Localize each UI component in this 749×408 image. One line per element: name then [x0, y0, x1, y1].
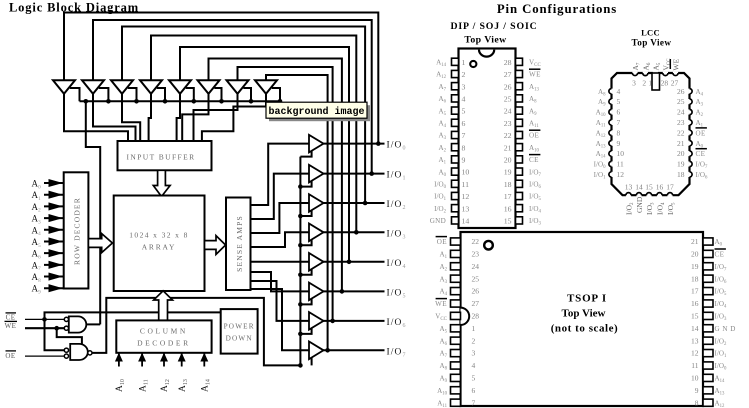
svg-text:28: 28 [661, 79, 669, 88]
svg-text:Top View: Top View [632, 38, 672, 48]
junction on enable bus 3 [163, 99, 168, 104]
svg-text:18: 18 [691, 274, 699, 283]
svg-text:A11: A11 [529, 120, 539, 130]
TSOP pin 24 stub [451, 263, 461, 270]
svg-text:WE: WE [672, 58, 681, 70]
svg-text:ARRAY: ARRAY [142, 242, 177, 251]
wire: I/O1 line [323, 173, 385, 175]
svg-text:26: 26 [472, 287, 480, 296]
svg-text:A6: A6 [438, 95, 446, 105]
wire: buffer A6 output into input buffer [182, 94, 208, 142]
wire: buffer A7 output into input buffer [194, 94, 238, 142]
svg-text:A11: A11 [138, 379, 149, 392]
svg-text:A11: A11 [437, 399, 447, 408]
TSOP pin 9 stub [703, 387, 713, 394]
svg-text:13: 13 [462, 204, 470, 213]
svg-text:19: 19 [691, 262, 699, 271]
svg-text:A4: A4 [32, 225, 42, 237]
junction on enable rail 3 [298, 243, 303, 248]
junction on enable bus 0 [84, 99, 89, 104]
svg-text:5: 5 [462, 107, 466, 116]
wire: WE input line [25, 327, 66, 329]
DIP pin 13 stub left [452, 205, 459, 212]
DIP pin 2 stub left [452, 70, 459, 77]
wire: enable tap to buffer A8 [272, 88, 280, 101]
svg-text:A13: A13 [529, 83, 540, 93]
wire: enable tap to output buffer B1 [300, 150, 311, 157]
wire: data line DQ1 from I/O1 pin to input buffer A2 [93, 20, 372, 174]
svg-text:A14: A14 [201, 379, 212, 392]
svg-text:background image: background image [268, 106, 364, 118]
svg-text:18: 18 [677, 170, 685, 179]
svg-text:A3: A3 [32, 214, 42, 226]
svg-text:A8: A8 [439, 362, 447, 372]
svg-text:A13: A13 [715, 387, 726, 397]
row decoder block U2 [64, 172, 89, 288]
wire: enable tap to buffer A6 [214, 88, 221, 101]
svg-text:A12: A12 [715, 399, 726, 408]
svg-text:24: 24 [504, 107, 512, 116]
column decoder block U5 [116, 320, 211, 352]
wire: enable tap to buffer A2 [99, 88, 109, 101]
DIP pin 27 stub right [516, 70, 523, 77]
svg-text:A4: A4 [439, 288, 447, 298]
svg-text:I/O6: I/O6 [715, 275, 727, 285]
svg-text:I/O1: I/O1 [387, 171, 407, 182]
svg-text:A7: A7 [438, 83, 446, 93]
svg-text:17: 17 [504, 192, 512, 201]
svg-text:A5: A5 [438, 107, 446, 117]
DIP pin 14 stub left [452, 217, 459, 224]
svg-text:GND: GND [635, 196, 644, 213]
wire: enable tap to buffer A1 [70, 88, 80, 101]
wire: data line DQ0 from I/O0 pin to input buffer A1 [64, 13, 378, 144]
junction on I/O7 line [325, 348, 330, 353]
svg-text:11: 11 [462, 180, 470, 189]
svg-text:A14: A14 [436, 59, 447, 69]
svg-text:I/O0: I/O0 [594, 161, 606, 171]
wire: CE to power-down and output gate [45, 312, 221, 319]
svg-text:8: 8 [462, 143, 466, 152]
data input buffer triangle A1 [53, 80, 75, 94]
svg-text:6: 6 [472, 386, 476, 395]
DIP pin 25 stub right [516, 95, 523, 102]
DIP pin 5 stub left [452, 107, 459, 114]
output buffer triangle B1 [309, 135, 324, 153]
power down block U6 [221, 309, 258, 354]
svg-text:1: 1 [472, 324, 476, 333]
svg-text:I/O3: I/O3 [715, 313, 727, 323]
svg-text:CE: CE [696, 150, 706, 158]
DIP package body [459, 49, 516, 229]
wire: OE input line [25, 355, 66, 357]
gate G2 output-control AND gate [70, 344, 88, 360]
wire: enable tap to buffer A3 [128, 88, 137, 101]
svg-text:7: 7 [462, 131, 466, 140]
G1 input bubble WE [64, 326, 68, 330]
svg-text:A0: A0 [32, 179, 42, 191]
svg-text:21: 21 [691, 237, 699, 246]
svg-text:15: 15 [645, 183, 653, 192]
TSOP package body [461, 232, 704, 406]
wire: WE tap to gate G2 top [57, 328, 82, 344]
svg-text:DIP / SOJ / SOIC: DIP / SOJ / SOIC [450, 21, 537, 32]
svg-text:A11: A11 [596, 119, 606, 129]
svg-text:I/O7: I/O7 [696, 161, 708, 171]
wire: sense amp output bit 1 to output buffer B2 [251, 174, 310, 219]
node address input A11 [141, 354, 143, 367]
svg-text:20: 20 [504, 156, 512, 165]
junction on enable bus 5 [219, 99, 224, 104]
svg-text:20: 20 [691, 250, 699, 259]
G2 output bubble [88, 351, 92, 355]
wire: enable tap to output buffer B8 [311, 356, 313, 365]
TSOP pin 11 stub [703, 362, 713, 369]
svg-text:I/O5: I/O5 [666, 202, 677, 215]
svg-text:CE: CE [529, 156, 539, 164]
svg-text:I/O7: I/O7 [387, 347, 407, 358]
LCC bottom edge castellations [626, 194, 631, 197]
DIP pin 20 stub right [516, 156, 523, 163]
svg-text:10: 10 [462, 168, 470, 177]
junction on enable bus 2 [134, 99, 139, 104]
svg-text:(not to scale): (not to scale) [551, 323, 619, 335]
svg-text:I/O4: I/O4 [656, 202, 667, 215]
svg-text:A5: A5 [651, 62, 662, 70]
junction on I/O3 line [354, 230, 359, 235]
TSOP pin 10 stub [703, 374, 713, 381]
svg-text:24: 24 [677, 108, 685, 117]
svg-text:A7: A7 [631, 62, 642, 70]
svg-text:20: 20 [677, 149, 685, 158]
wire: row decoder to array hollow arrow [88, 234, 112, 253]
svg-text:23: 23 [472, 250, 480, 259]
junction on enable rail 4 [298, 273, 303, 278]
wire: buffer A4 output into input buffer [149, 94, 151, 142]
junction on enable bus 1 [106, 99, 111, 104]
svg-text:A13: A13 [596, 140, 607, 150]
junction on I/O0 line [376, 141, 381, 146]
svg-text:14: 14 [635, 183, 643, 192]
svg-text:A9: A9 [598, 98, 606, 108]
TSOP pin 6 stub [451, 387, 461, 394]
junction on I/O5 line [340, 289, 345, 294]
svg-text:GND: GND [430, 217, 446, 225]
svg-text:26: 26 [677, 87, 685, 96]
svg-text:I/O5: I/O5 [529, 193, 541, 203]
svg-text:I/O5: I/O5 [715, 288, 727, 298]
DIP pin 22 stub right [516, 131, 523, 138]
svg-text:I/O7: I/O7 [529, 168, 541, 178]
TSOP pin 26 stub [451, 288, 461, 295]
svg-text:A12: A12 [160, 379, 171, 392]
svg-text:A7: A7 [32, 260, 42, 272]
svg-text:A12: A12 [596, 129, 607, 139]
junction on enable rail 2 [298, 214, 303, 219]
wire: enable tap to output buffer B3 [300, 209, 311, 216]
svg-text:9: 9 [695, 386, 699, 395]
TSOP pin 18 stub [703, 275, 713, 282]
LCC package body [612, 73, 690, 195]
svg-text:INPUT BUFFER: INPUT BUFFER [127, 153, 196, 162]
TSOP pin 1 stub [451, 325, 461, 332]
wire: enable tap to output buffer B6 [300, 297, 311, 304]
svg-text:22: 22 [677, 128, 685, 137]
svg-text:3: 3 [472, 349, 476, 358]
svg-text:25: 25 [472, 274, 480, 283]
wire: enable tap to output buffer B4 [300, 238, 311, 245]
svg-text:23: 23 [677, 118, 685, 127]
svg-text:OE: OE [5, 352, 15, 360]
wire: I/O4 line [323, 261, 385, 263]
svg-text:26: 26 [504, 82, 512, 91]
svg-text:I/O3: I/O3 [387, 229, 407, 240]
svg-text:25: 25 [677, 97, 685, 106]
svg-text:SENSE AMPS: SENSE AMPS [235, 215, 244, 272]
svg-text:6: 6 [462, 119, 466, 128]
svg-text:DOWN: DOWN [226, 335, 253, 343]
TSOP pin 25 stub [451, 275, 461, 282]
svg-text:A0: A0 [696, 140, 704, 150]
LCC pin-1 marker [652, 73, 660, 90]
wire: array to sense amps hollow arrow [205, 236, 226, 255]
svg-text:I/O4: I/O4 [529, 205, 541, 215]
TSOP pin 8 stub [703, 399, 713, 406]
svg-text:A1: A1 [696, 119, 704, 129]
data input buffer triangle A7 [227, 80, 249, 94]
svg-text:I/O5: I/O5 [387, 289, 407, 300]
data input buffer triangle A6 [198, 80, 220, 94]
junction on CE line [42, 317, 47, 322]
svg-text:5: 5 [617, 97, 621, 106]
svg-text:A13: A13 [178, 379, 189, 392]
DIP pin 15 stub right [516, 217, 523, 224]
DIP pin 23 stub right [516, 119, 523, 126]
svg-text:POWER: POWER [224, 323, 255, 331]
wire: enable tap to output buffer B2 [300, 180, 311, 187]
svg-text:A4: A4 [438, 120, 446, 130]
junction on enable bus 4 [192, 99, 197, 104]
DIP pin 21 stub right [516, 144, 523, 151]
svg-text:A2: A2 [439, 263, 447, 273]
TSOP pin 21 stub [703, 238, 713, 245]
svg-text:I/O3: I/O3 [529, 217, 541, 227]
DIP pin 7 stub left [452, 131, 459, 138]
TSOP pin-1 indicator circle [484, 241, 493, 250]
wire: buffer A2 output into input buffer [93, 94, 136, 142]
wire: I/O3 line [323, 231, 385, 233]
svg-text:Pin Configurations: Pin Configurations [497, 2, 617, 16]
DIP pin 24 stub right [516, 107, 523, 114]
wire: I/O6 line [323, 320, 385, 322]
svg-text:A1: A1 [438, 156, 446, 166]
junction on enable rail 1 [298, 184, 303, 189]
svg-text:DECODER: DECODER [137, 338, 191, 347]
junction on I/O1 line [369, 171, 374, 176]
svg-text:A7: A7 [439, 350, 447, 360]
TSOP pin 17 stub [703, 288, 713, 295]
svg-text:I/O4: I/O4 [387, 259, 407, 270]
svg-text:VCC: VCC [435, 313, 447, 323]
svg-text:1: 1 [462, 58, 466, 67]
svg-text:A10: A10 [529, 144, 540, 154]
svg-text:4: 4 [617, 87, 621, 96]
svg-text:28: 28 [472, 312, 480, 321]
svg-text:A9: A9 [439, 375, 447, 385]
output buffer triangle B8 [309, 342, 324, 360]
wire: enable tap to output buffer B5 [300, 268, 311, 275]
svg-text:I/O1: I/O1 [434, 193, 446, 203]
wire: I/O7 line [323, 349, 385, 351]
wire: data line DQ3 from I/O3 pin to input buffer A4 [151, 36, 356, 233]
node address input A10 [118, 354, 120, 367]
svg-text:I/O6: I/O6 [387, 318, 407, 329]
junction on enable rail 5 [298, 302, 303, 307]
svg-text:A6: A6 [439, 337, 447, 347]
data input buffer triangle A2 [82, 80, 104, 94]
TSOP pin 5 stub [451, 374, 461, 381]
svg-text:23: 23 [504, 119, 512, 128]
wire: data line DQ4 from I/O4 pin to input buffer A5 [180, 47, 349, 262]
node address input A14 [203, 354, 205, 367]
junction on enable rail 6 [298, 332, 303, 337]
node address input A13 [181, 354, 183, 367]
DIP pin-1 indicator circle [470, 61, 476, 67]
wire: buffer A3 output into input buffer [122, 94, 140, 142]
svg-text:A9: A9 [32, 284, 42, 296]
wire: buffer A8 output into input buffer [202, 94, 266, 142]
TSOP pin 15 stub [703, 312, 713, 319]
svg-text:7: 7 [472, 398, 476, 407]
junction on WE line [54, 326, 59, 331]
svg-text:A12: A12 [436, 71, 447, 81]
svg-text:A10: A10 [437, 387, 448, 397]
svg-text:I/O2: I/O2 [625, 202, 636, 215]
svg-text:A9: A9 [529, 107, 537, 117]
svg-text:WE: WE [5, 322, 17, 330]
svg-text:VCC: VCC [529, 59, 541, 69]
TSOP pin 23 stub [451, 250, 461, 257]
DIP pin 6 stub left [452, 119, 459, 126]
svg-text:2: 2 [642, 79, 646, 88]
LCC left edge castellations [610, 89, 613, 94]
svg-text:15: 15 [504, 217, 512, 226]
svg-text:28: 28 [504, 58, 512, 67]
svg-text:3: 3 [462, 82, 466, 91]
svg-text:12: 12 [617, 170, 625, 179]
junction on I/O6 line [330, 319, 335, 324]
wire: sense amp output bit 6 to output buffer B7 [251, 281, 310, 321]
svg-text:1024 x 32 x 8: 1024 x 32 x 8 [129, 230, 188, 239]
DIP pin 16 stub right [516, 205, 523, 212]
svg-text:A3: A3 [439, 275, 447, 285]
data input buffer triangle A5 [169, 80, 191, 94]
wire: enable tap to buffer A5 [186, 88, 194, 101]
TSOP pin 20 stub [703, 250, 713, 257]
input buffer block U1 [118, 141, 212, 170]
svg-text:6: 6 [617, 108, 621, 117]
junction on I/O4 line [347, 260, 352, 265]
svg-text:11: 11 [691, 361, 698, 370]
svg-text:A0: A0 [438, 168, 446, 178]
wire: buffer A1 output into input buffer [64, 94, 128, 142]
svg-text:14: 14 [462, 217, 470, 226]
svg-text:17: 17 [691, 287, 699, 296]
svg-text:10: 10 [617, 149, 625, 158]
wire: enable bus to write gate G1 [86, 101, 100, 324]
wire: data line DQ2 from I/O2 pin to input buffer A3 [122, 27, 365, 204]
wire: sense amp output bit 3 to output buffer B4 [251, 232, 310, 247]
svg-text:G N D: G N D [715, 325, 736, 333]
svg-text:A2: A2 [32, 202, 42, 214]
svg-text:I/O2: I/O2 [387, 200, 407, 211]
svg-text:A3: A3 [438, 132, 446, 142]
svg-text:2: 2 [472, 336, 476, 345]
output buffer triangle B3 [309, 194, 324, 212]
data input buffer triangle A3 [111, 80, 133, 94]
svg-text:A6: A6 [641, 62, 652, 70]
wire: enable tap to output buffer B7 [300, 327, 311, 334]
svg-text:WE: WE [435, 300, 447, 308]
wire: enable tap to buffer A7 [243, 88, 251, 101]
svg-text:21: 21 [677, 139, 685, 148]
G1 input bubble CE [64, 317, 68, 321]
junction on enable bus 6 [249, 99, 254, 104]
DIP pin 3 stub left [452, 83, 459, 90]
svg-text:15: 15 [691, 312, 699, 321]
svg-text:I/O2: I/O2 [434, 205, 446, 215]
output buffer triangle B7 [309, 312, 324, 330]
junction on I/O2 line [363, 201, 368, 206]
junction enable rail bottom [298, 363, 303, 368]
svg-text:7: 7 [617, 118, 621, 127]
svg-text:A10: A10 [596, 109, 607, 119]
background image tooltip artifact [269, 105, 370, 121]
DIP pin 26 stub right [516, 83, 523, 90]
wire: CE tap down to gate G2 [45, 319, 67, 350]
TSOP pin 7 stub [451, 399, 461, 406]
node address input A12 [163, 354, 165, 367]
svg-text:CE: CE [6, 313, 16, 321]
svg-text:8: 8 [617, 128, 621, 137]
svg-text:A5: A5 [439, 325, 447, 335]
svg-text:9: 9 [462, 156, 466, 165]
DIP pin 1 stub left [452, 58, 459, 65]
svg-text:WE: WE [529, 71, 541, 79]
wire: enable tap to buffer A4 [157, 88, 165, 101]
svg-text:I/O4: I/O4 [715, 300, 727, 310]
DIP pin 18 stub right [516, 180, 523, 187]
output buffer triangle B2 [309, 165, 324, 183]
TSOP pin 13 stub [703, 337, 713, 344]
svg-text:16: 16 [691, 299, 699, 308]
DIP pin 11 stub left [452, 180, 459, 187]
wire: input buffer to array hollow arrow [153, 170, 170, 196]
svg-text:16: 16 [504, 204, 512, 213]
svg-text:A8: A8 [529, 95, 537, 105]
output buffer triangle B5 [309, 253, 324, 271]
svg-text:2: 2 [462, 70, 466, 79]
svg-text:24: 24 [472, 262, 480, 271]
svg-text:27: 27 [472, 299, 480, 308]
svg-text:A1: A1 [439, 251, 447, 261]
svg-text:I/O1: I/O1 [715, 350, 727, 360]
wire: data line DQ6 from I/O6 pin to input buffer A7 [238, 67, 333, 321]
svg-text:A2: A2 [438, 144, 446, 154]
svg-text:I/O0: I/O0 [387, 141, 407, 152]
svg-text:Top View: Top View [464, 35, 507, 46]
wire: data line DQ5 from I/O5 pin to input buffer A6 [209, 59, 342, 292]
